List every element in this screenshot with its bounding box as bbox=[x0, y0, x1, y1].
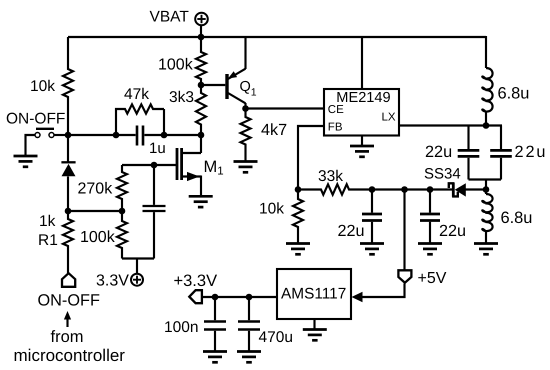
label 22u right bbox=[439, 222, 466, 240]
arrow from microcontroller bbox=[64, 311, 71, 327]
mosfet M1 bbox=[177, 135, 201, 196]
label 22u out left bbox=[425, 143, 452, 161]
capacitor 22u right bbox=[420, 190, 440, 244]
resistor 270k bbox=[117, 165, 127, 211]
wire node A down to diode bbox=[67, 135, 69, 162]
node VBAT supply symbol bbox=[195, 13, 208, 37]
label LX pin bbox=[382, 111, 396, 123]
svg-text:ON-OFF: ON-OFF bbox=[38, 292, 100, 310]
junction 22u right bbox=[427, 186, 434, 193]
label 470u bbox=[259, 329, 293, 346]
label 1k bbox=[39, 213, 56, 230]
resistor 10k pull-up bbox=[63, 37, 73, 135]
svg-text:4k7: 4k7 bbox=[261, 121, 287, 139]
label FB pin bbox=[328, 122, 343, 134]
wire 5V drop bbox=[403, 190, 405, 270]
svg-text:R1: R1 bbox=[38, 232, 58, 249]
junction node C bbox=[65, 208, 72, 215]
capacitor 470u bbox=[238, 297, 260, 352]
capacitor 22u out left bbox=[458, 126, 480, 180]
wire output row bbox=[372, 188, 452, 190]
resistor 3k3 bbox=[196, 85, 206, 135]
capacitor gate filter bbox=[143, 165, 166, 259]
capacitor 22u mid bbox=[362, 190, 382, 244]
resistor 100k base bbox=[196, 37, 206, 85]
arrow into AMS1117 bbox=[352, 292, 363, 303]
svg-text:33k: 33k bbox=[318, 168, 343, 185]
ground 4k7 bbox=[234, 162, 258, 173]
wire base bbox=[201, 84, 225, 86]
ground coil bottom bbox=[474, 244, 498, 255]
wire diode to node C bbox=[67, 177, 69, 212]
ground M1 bbox=[189, 196, 213, 207]
ground 22u mid bbox=[360, 244, 384, 255]
label VBAT bbox=[150, 9, 190, 26]
label SS34 bbox=[424, 166, 461, 183]
diode SS34 schottky bbox=[449, 183, 486, 197]
label +3.3V bbox=[174, 272, 218, 290]
ground AMS1117 bbox=[303, 330, 327, 341]
wire 3.3V tap bbox=[136, 259, 138, 274]
svg-text:6.8u: 6.8u bbox=[498, 84, 530, 102]
svg-text:10k: 10k bbox=[259, 201, 284, 218]
wire 5V to regulator bbox=[361, 284, 405, 298]
svg-text:+3.3V: +3.3V bbox=[174, 272, 218, 290]
svg-text:SS34: SS34 bbox=[424, 166, 461, 183]
label 3.3V bbox=[96, 273, 129, 290]
label 10k bbox=[30, 78, 55, 95]
svg-text:AMS1117: AMS1117 bbox=[281, 285, 346, 302]
label from bbox=[51, 328, 84, 346]
svg-text:10k: 10k bbox=[30, 78, 55, 95]
junction node B bbox=[198, 132, 205, 139]
label 6.8u top bbox=[498, 84, 530, 102]
capacitor 100n bbox=[204, 297, 226, 352]
resistor 4k7 bbox=[241, 109, 251, 162]
label 22u mid bbox=[338, 222, 365, 240]
label CE pin bbox=[328, 104, 344, 116]
junction 22u mid bbox=[369, 186, 376, 193]
svg-text:270k: 270k bbox=[78, 181, 114, 198]
diode D1 bbox=[61, 162, 75, 176]
switch S1 bbox=[35, 129, 54, 138]
wire switch to node A bbox=[54, 134, 68, 136]
junction 470u bbox=[246, 294, 253, 301]
junction 100n bbox=[212, 294, 219, 301]
svg-text:+5V: +5V bbox=[418, 270, 447, 287]
label microcontroller bbox=[14, 346, 126, 365]
capacitor 22u out right bbox=[490, 126, 512, 180]
label 4k7 bbox=[261, 121, 287, 139]
svg-text:FB: FB bbox=[328, 122, 343, 134]
label 47k bbox=[124, 86, 149, 103]
svg-text:100k: 100k bbox=[158, 57, 194, 74]
svg-text:3.3V: 3.3V bbox=[96, 273, 129, 290]
label M1 bbox=[204, 158, 224, 178]
junction divider mid bbox=[119, 208, 126, 215]
svg-text:CE: CE bbox=[328, 104, 344, 116]
wire LX net bbox=[399, 124, 502, 126]
svg-text:LX: LX bbox=[382, 111, 396, 123]
junction gate cap bbox=[151, 162, 158, 169]
svg-text:3k3: 3k3 bbox=[169, 89, 194, 106]
svg-text:470u: 470u bbox=[259, 329, 293, 346]
label +5V bbox=[418, 270, 447, 287]
svg-text:100k: 100k bbox=[80, 229, 116, 246]
label 22u out right bbox=[515, 143, 548, 161]
junction out node bbox=[483, 186, 490, 193]
capacitor 1u bbox=[137, 126, 143, 146]
wire ME2149 gnd bbox=[361, 136, 363, 147]
svg-text:22u: 22u bbox=[425, 143, 452, 161]
svg-text:22u: 22u bbox=[515, 143, 548, 161]
junction 47k left bbox=[113, 132, 120, 139]
svg-text:47k: 47k bbox=[124, 86, 149, 103]
junction base node bbox=[198, 82, 205, 89]
wire ME2149 vin bbox=[361, 37, 363, 89]
ic AMS1117 box bbox=[277, 269, 351, 319]
label 10k fb bbox=[259, 201, 284, 218]
ground 470u bbox=[237, 352, 261, 363]
wire 3.3V output bbox=[203, 296, 278, 298]
wire FB net bbox=[298, 126, 324, 190]
inductor 6.8u top bbox=[482, 68, 492, 126]
junction 47k right bbox=[161, 132, 168, 139]
svg-text:22u: 22u bbox=[439, 222, 466, 240]
svg-text:22u: 22u bbox=[338, 222, 365, 240]
junction FB node bbox=[295, 186, 302, 193]
ground 22u right bbox=[418, 244, 442, 255]
wire switch left to ground bbox=[26, 135, 35, 156]
junction node A bbox=[65, 132, 72, 139]
label 100k divider bbox=[80, 229, 116, 246]
node 3.3V supply symbol bbox=[131, 274, 143, 286]
svg-text:microcontroller: microcontroller bbox=[14, 346, 126, 365]
svg-text:from: from bbox=[51, 328, 84, 346]
resistor 33k bbox=[298, 184, 372, 194]
label Q1 bbox=[240, 79, 257, 99]
label 100k base bbox=[158, 57, 194, 74]
ground switch bbox=[14, 156, 38, 167]
resistor R1 1k bbox=[63, 211, 73, 273]
svg-text:1k: 1k bbox=[39, 213, 56, 230]
svg-text:VBAT: VBAT bbox=[150, 9, 190, 26]
label R1 bbox=[38, 232, 58, 249]
label ON-OFF switch bbox=[6, 111, 65, 128]
junction VBAT rail bbox=[198, 34, 205, 41]
wire node C to divider bbox=[68, 210, 122, 212]
wire filter bottom bbox=[469, 180, 502, 190]
svg-text:ON-OFF: ON-OFF bbox=[6, 111, 65, 128]
svg-text:1u: 1u bbox=[149, 140, 166, 157]
port ON-OFF input pentagon bbox=[62, 273, 75, 287]
resistor 100k divider bbox=[117, 211, 127, 259]
ground 100n bbox=[203, 352, 227, 363]
resistor 47k bridge bbox=[116, 104, 164, 135]
label 33k bbox=[318, 168, 343, 185]
junction LX node bbox=[483, 122, 490, 129]
junction 5V tap bbox=[401, 186, 408, 193]
port 3.3V pentagon bbox=[189, 290, 202, 303]
ic ME2149 box bbox=[324, 89, 399, 136]
svg-text:6.8u: 6.8u bbox=[501, 209, 533, 227]
junction collector bbox=[242, 105, 249, 112]
wire node A to cap 1u bbox=[68, 134, 136, 136]
label 1u bbox=[149, 140, 166, 157]
port 5V pentagon bbox=[398, 270, 411, 282]
wire top VBAT rail bbox=[68, 36, 486, 38]
label ME2149 bbox=[336, 90, 390, 106]
svg-text:100n: 100n bbox=[164, 319, 198, 336]
resistor 10k fb bbox=[293, 190, 303, 244]
ground 10k fb bbox=[286, 244, 310, 255]
wire gate line bbox=[122, 164, 177, 166]
svg-text:ME2149: ME2149 bbox=[336, 90, 390, 106]
wire cap 1u to node B bbox=[144, 134, 201, 136]
label 3k3 bbox=[169, 89, 194, 106]
transistor Q1 bbox=[227, 37, 246, 109]
label 100n bbox=[164, 319, 198, 336]
wire AMS1117 gnd bbox=[313, 319, 315, 330]
wire divider bottom rail bbox=[122, 257, 154, 259]
ground ME2149 bbox=[350, 146, 374, 157]
wire CE bbox=[246, 107, 325, 109]
inductor 6.8u bottom bbox=[482, 190, 492, 244]
label AMS1117 bbox=[281, 285, 346, 302]
label 6.8u bottom bbox=[501, 209, 533, 227]
label 270k bbox=[78, 181, 114, 198]
wire rail to coil bbox=[485, 36, 487, 68]
label ON-OFF input bbox=[38, 292, 100, 310]
